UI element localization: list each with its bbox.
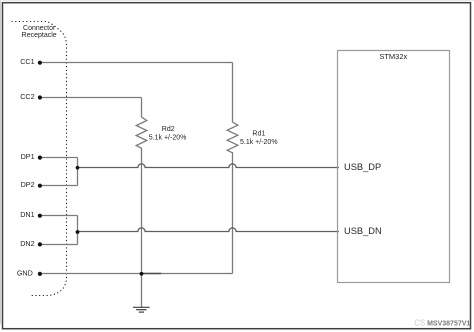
svg-text:DP1: DP1 xyxy=(21,152,35,161)
svg-text:Connector: Connector xyxy=(23,25,56,32)
svg-text:5.1k +/-20%: 5.1k +/-20% xyxy=(149,134,187,141)
svg-text:5.1k +/-20%: 5.1k +/-20% xyxy=(240,139,278,146)
svg-text:USB_DN: USB_DN xyxy=(344,226,382,236)
svg-text:CC2: CC2 xyxy=(20,92,34,101)
svg-text:Rd1: Rd1 xyxy=(252,131,265,138)
svg-text:Rd2: Rd2 xyxy=(162,126,175,133)
svg-text:MSV38757V1: MSV38757V1 xyxy=(427,320,470,327)
svg-text:GND: GND xyxy=(17,269,33,278)
svg-text:USB_DP: USB_DP xyxy=(344,162,381,172)
svg-text:Receptacle: Receptacle xyxy=(22,32,57,39)
svg-text:CC1: CC1 xyxy=(20,57,34,66)
svg-text:DP2: DP2 xyxy=(21,180,35,189)
svg-text:STM32x: STM32x xyxy=(379,52,407,61)
svg-text:CS: CS xyxy=(414,318,425,327)
svg-text:DN2: DN2 xyxy=(20,239,34,248)
svg-text:DN1: DN1 xyxy=(20,210,34,219)
